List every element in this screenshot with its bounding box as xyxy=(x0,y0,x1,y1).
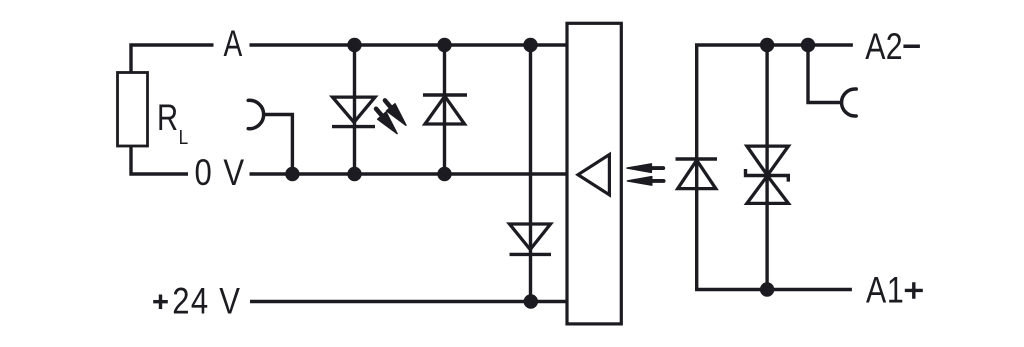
svg-text:A1: A1 xyxy=(866,269,904,311)
clamp diode D3 cathode bar xyxy=(510,253,552,256)
TVS suppressor lower triangle xyxy=(747,176,789,204)
label A2 minus sign xyxy=(903,45,920,49)
LED emission arrow 1 xyxy=(372,105,401,137)
freewheeling diode D4 triangle xyxy=(678,160,716,188)
node dot A/LED xyxy=(347,38,361,52)
wire LED branch vertical xyxy=(353,45,356,174)
receiver triangle U1 xyxy=(578,155,609,195)
node dot A/middle branch xyxy=(523,38,537,52)
LED D1 cathode bar xyxy=(332,125,375,128)
optocoupler module box xyxy=(567,23,621,324)
label +24 V plus sign xyxy=(153,295,168,310)
svg-text:R: R xyxy=(157,98,178,139)
protection diode D2 triangle xyxy=(425,96,465,124)
wire 0V right segment (label to box) xyxy=(250,172,567,175)
svg-text:A: A xyxy=(224,22,243,64)
wire TVS branch vertical xyxy=(765,45,768,290)
light arrow into receiver 2 xyxy=(627,177,663,186)
wire 0V left segment (resistor to label) xyxy=(131,146,188,174)
TVS suppressor upper triangle xyxy=(747,146,789,175)
node dot +24V/middle branch xyxy=(524,294,538,308)
freewheeling diode D4 cathode bar xyxy=(676,157,718,160)
svg-text:L: L xyxy=(179,127,189,150)
wire switch contact to 0V node xyxy=(265,115,293,175)
svg-text:24 V: 24 V xyxy=(172,281,241,322)
TVS suppressor zener bar xyxy=(746,169,789,182)
wire A2 contact stub xyxy=(808,45,842,103)
node dot A2/TVS xyxy=(760,38,774,52)
node dot 0V/switch xyxy=(285,167,299,181)
wire A right segment (label to box) xyxy=(250,43,567,46)
resistor RL body xyxy=(118,73,148,147)
node dot A/diode xyxy=(437,38,451,52)
svg-text:A2: A2 xyxy=(865,26,903,68)
wire A left segment with corner to resistor xyxy=(131,45,214,73)
light arrow into receiver 1 xyxy=(627,164,663,173)
node dot 0V/diode xyxy=(437,167,451,181)
clamp diode D3 triangle xyxy=(510,224,551,250)
protection diode D2 cathode bar xyxy=(423,93,467,96)
A2 contact half-circle xyxy=(842,89,857,116)
LED D1 triangle xyxy=(333,97,376,122)
switch contact half-circle at 0V input xyxy=(248,100,263,128)
label A1 plus sign xyxy=(905,282,923,299)
wire middle branch A to +24V vertical xyxy=(529,45,532,302)
node dot A1/TVS xyxy=(760,282,774,296)
node dot 0V/LED xyxy=(347,167,361,181)
LED emission arrow 2 xyxy=(381,97,410,129)
node dot A2/contact stub xyxy=(801,38,815,52)
wire +24V (label to box) xyxy=(250,300,567,303)
wire A2- horizontal and A1+ horizontal with left vertical xyxy=(697,45,853,290)
wire protection diode branch vertical xyxy=(443,45,446,174)
svg-text:0 V: 0 V xyxy=(195,153,246,194)
